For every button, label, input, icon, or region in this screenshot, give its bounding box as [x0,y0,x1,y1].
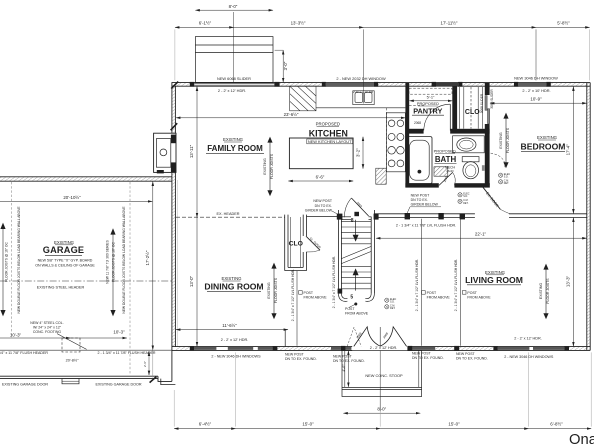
svg-text:13'-0": 13'-0" [189,275,194,287]
svg-text:S.D.: S.D. [390,301,395,304]
svg-text:NEW DOUBLE FLOOR JOISTS BELOW: NEW DOUBLE FLOOR JOISTS BELOW LOAD BEARI… [17,206,21,314]
dim: step small vertical [148,352,150,375]
door: dining closet door angled [306,236,320,252]
dim text: bottom row [199,407,563,427]
svg-text:FAMILY ROOM: FAMILY ROOM [207,144,263,153]
bath toilet [462,157,479,179]
svg-text:DN TO EX.: DN TO EX. [315,204,332,208]
svg-text:2 - 1 3/4" x 11 7/8" FLUSH HEA: 2 - 1 3/4" x 11 7/8" FLUSH HEADER [0,351,48,355]
svg-text:POST: POST [304,291,314,295]
dim: top row 6'-1 1/2" [175,26,234,28]
room: bedroom [521,135,566,151]
room: living room [465,270,523,285]
extension lines top [174,29,176,80]
svg-text:2 - 1 3/4" x 7 1/2" LVL FLUSH: 2 - 1 3/4" x 7 1/2" LVL FLUSH HDR. [454,259,458,311]
svg-text:5'-8½": 5'-8½" [557,21,570,26]
wall: header segment closet to stairs [306,216,338,218]
note: steel column [30,321,63,334]
svg-text:NEW 4" STEEL COL.: NEW 4" STEEL COL. [30,321,63,325]
wall: west wall of family room [172,83,176,134]
dim: garage 10'-3" right [71,337,127,339]
svg-text:DET.: DET. [463,202,469,205]
dim: garage width 20'-10 1/2" [0,200,152,202]
svg-text:EXISTING GARAGE DOOR: EXISTING GARAGE DOOR [95,383,141,387]
svg-text:2 - 1 3/4" x 11 7/8" LVL FLUSH: 2 - 1 3/4" x 11 7/8" LVL FLUSH HDR. [396,224,456,228]
svg-text:EXISTING: EXISTING [223,137,244,142]
post: black corner at stair bottom left [338,289,343,294]
note: smoke detector symbols near stairs [385,298,397,310]
svg-text:LIVING ROOM: LIVING ROOM [465,275,523,285]
window: pantry north window [432,82,463,87]
svg-text:NEW 3046 DH WINDOW: NEW 3046 DH WINDOW [514,75,558,80]
note: smoke detector symbols hallway [458,193,470,205]
stairs: upper run treads (8 up) [341,221,371,243]
dim: bottom row 15'-0" left [236,428,381,430]
kitchen: hatched base cabinet at SW of range [376,168,386,184]
svg-text:8'-0": 8'-0" [229,4,238,9]
dim: dining windows 11'-6 1/2" [176,329,288,331]
window: sidelight left of entry [331,346,351,351]
note: new post dn to ex found (4x) [285,352,488,363]
svg-text:POST: POST [427,291,437,295]
svg-text:POST: POST [345,307,355,311]
column: new steel column dashed box with leader [57,334,87,352]
wall: garage south wall with door openings [0,350,175,384]
dim: bedroom 10'-9" [490,102,587,104]
svg-text:22'-1": 22'-1" [475,231,487,236]
svg-text:2068: 2068 [414,121,421,125]
svg-text:2 - NEW 2032 DH WINDOW: 2 - NEW 2032 DH WINDOW [336,76,386,81]
room: family room [206,137,264,153]
room: kitchen [307,121,353,143]
door: front entry double doors [347,327,406,347]
svg-text:2'-6": 2'-6" [143,361,147,367]
svg-text:NEW POST: NEW POST [411,193,431,197]
flush header line: below dining closet [296,271,298,346]
svg-text:NEW POST: NEW POST [333,354,353,358]
door: stair top door with swing fan [344,198,368,217]
joist arrow: dining room [271,263,276,320]
dim: top row 17'-11 1/2" [364,26,537,28]
svg-text:GIRDER BELOW: GIRDER BELOW [305,208,333,212]
wall: interior header / bedroom south wall [375,213,587,218]
svg-text:15'-0": 15'-0" [448,421,460,426]
svg-text:NEW KITCHEN LAYOUT: NEW KITCHEN LAYOUT [308,139,352,144]
svg-text:EXISTING: EXISTING [221,276,242,281]
wall: pantry/closet divider [452,86,457,132]
svg-text:EXISTING: EXISTING [499,132,503,149]
svg-text:2 - 2' x 12' HDR.: 2 - 2' x 12' HDR. [370,346,398,350]
wall: dining closet CLO [285,215,307,271]
bath: mech chase hatched [434,167,448,176]
svg-text:CLO: CLO [465,109,480,116]
dim: stoop depth 4'-0" [347,351,349,387]
svg-text:6'-8½": 6'-8½" [550,421,563,426]
wall: east exterior wall [587,83,590,351]
dim: top row 13'-3 1/2" [234,26,364,28]
svg-text:GARAGE: GARAGE [43,245,85,255]
svg-text:EXISTING: EXISTING [263,158,267,175]
wall: bath south wall [405,183,489,187]
svg-text:NEW POST: NEW POST [412,352,432,356]
wall: step at garage SE corner [158,376,172,381]
header: garage flush header line [0,349,172,351]
svg-text:FLOOR JOISTS: FLOOR JOISTS [546,278,550,304]
fireplace: family room west wall [154,133,176,173]
svg-text:EXISTING STEEL HEADER: EXISTING STEEL HEADER [37,286,85,290]
room: dining room [204,276,263,291]
wall: closet east / bedroom west wall [485,83,490,185]
svg-text:CLO: CLO [289,240,303,247]
joist arrows: garage bays [0,182,130,375]
joist arrow: family room [267,137,272,197]
svg-text:3068 SLIDER: 3068 SLIDER [480,93,484,113]
stoop center line [379,351,381,411]
dim text: top row [199,4,570,26]
stairs: down arrow upper run [351,218,359,242]
note: new post dn to ex girder below (right of stairs) [407,193,441,213]
dim: bottom row 6'-8 1/2" [529,428,592,430]
svg-text:8: 8 [351,218,354,224]
svg-text:S.D.: S.D. [463,195,468,198]
kitchen counter: corner unit with X [290,86,316,111]
svg-text:2 - 2' x 12' HDR.: 2 - 2' x 12' HDR. [514,337,542,341]
svg-text:17'-4": 17'-4" [566,144,571,156]
note: new post dn to ex girder below (left of stairs) [305,199,338,214]
svg-text:DET.: DET. [390,307,396,310]
svg-text:6'-1½": 6'-1½" [199,21,212,26]
svg-text:2 - NEW 3046 DH WINDOWS: 2 - NEW 3046 DH WINDOWS [211,355,261,359]
svg-text:S.D.: S.D. [504,176,509,179]
window: 2 - NEW 3046 DH WINDOWS living room front [493,346,569,351]
svg-text:15'-0": 15'-0" [302,421,314,426]
svg-text:13'-11": 13'-11" [189,144,194,158]
svg-text:EX. HEADER: EX. HEADER [217,212,240,216]
kitchen island: NEW KITCHEN LAYOUT [289,138,353,169]
dim: living room depth 13'-3" [572,218,574,346]
joist arrow: living room [543,264,548,320]
dim: deck width 8'-0" [195,9,273,11]
window: NEW 3046 DH WINDOW bedroom north [514,82,551,87]
door opening: pantry 2068 door [424,128,451,134]
dim: garage 10'-3" left [0,337,71,339]
dim: west rooms 13'-11" [196,87,198,218]
svg-text:DN TO EX. FOUND.: DN TO EX. FOUND. [333,359,365,363]
window: right of entry [407,346,459,351]
svg-text:2 - 1 3/4" x 11 7/8" FLUSH HEA: 2 - 1 3/4" x 11 7/8" FLUSH HEADER [97,351,155,355]
svg-text:MECH: MECH [445,166,456,170]
dim: bottom row 6'-4 1/2" [174,428,235,430]
room: bath [434,149,457,183]
svg-text:3'-2": 3'-2" [355,148,360,157]
svg-text:DET.: DET. [504,182,510,185]
svg-text:5'-1": 5'-1" [427,94,435,99]
stairs: enclosure walls [338,210,374,301]
svg-text:EXISTING GARAGE DOOR: EXISTING GARAGE DOOR [2,383,48,387]
dim: stoop width 8'-0" [343,412,420,414]
svg-text:POST: POST [467,291,477,295]
door opening: bath 2068 door [439,183,455,188]
dim: island 3'-2" [362,137,364,169]
svg-text:NEW 11 7/8" TJI 360 SERIES: NEW 11 7/8" TJI 360 SERIES [105,239,109,283]
svg-text:10'-3": 10'-3" [113,329,125,334]
svg-text:FLOOR JOISTS @ 16" OC: FLOOR JOISTS @ 16" OC [5,242,9,282]
svg-text:NEW POST: NEW POST [313,199,333,203]
svg-text:PROPOSED: PROPOSED [434,149,456,154]
room: garage [35,240,95,268]
svg-text:4'-0": 4'-0" [342,364,346,372]
door: bedroom entry door angled with swing [482,153,510,214]
closet CLO: shelf lines [459,87,482,129]
wall: west wall of dining room / garage east wall [172,172,178,381]
dim: island 6'-6" [288,180,353,182]
svg-text:FLOOR JOISTS: FLOOR JOISTS [506,127,510,153]
svg-text:17'-11½": 17'-11½" [441,21,458,26]
svg-text:NEW 6068 SLIDER: NEW 6068 SLIDER [217,76,251,81]
wall: garage north wall [0,177,172,181]
svg-text:NEW DOUBLE FLOOR JOISTS BELOW: NEW DOUBLE FLOOR JOISTS BELOW LOAD BEARI… [122,206,126,314]
svg-text:2 - 1 3/4" x 7 1/2" LVL FLUSH: 2 - 1 3/4" x 7 1/2" LVL FLUSH HDR. [332,256,336,308]
svg-text:PANTRY: PANTRY [413,106,442,115]
svg-text:20'-8½": 20'-8½" [66,358,79,362]
svg-text:FLOOR JOISTS @ 16" OC: FLOOR JOISTS @ 16" OC [112,242,116,282]
svg-text:17'-2½": 17'-2½" [145,250,150,265]
dim: bottom row 15'-0" right [380,428,528,430]
wall: south exterior wall (front) [172,347,590,351]
svg-text:FROM ABOVE: FROM ABOVE [427,296,451,300]
svg-text:11'-6½": 11'-6½" [222,323,237,328]
svg-text:6'-6": 6'-6" [316,175,325,180]
window: small bar bath east wall [482,165,485,171]
svg-text:EXISTING: EXISTING [537,135,558,140]
wall: pantry/bath divider [405,129,489,134]
dim: top row 5'-8 1/2" [536,26,590,28]
dim: west rooms 13'-0" [196,217,198,346]
svg-text:GIRDER BELOW: GIRDER BELOW [411,203,439,207]
svg-text:KITCHEN: KITCHEN [309,129,348,139]
svg-text:FROM ABOVE: FROM ABOVE [304,296,328,300]
svg-text:13'-3½": 13'-3½" [291,21,306,26]
svg-text:PROPOSED: PROPOSED [417,101,439,106]
wall hatching: exterior wall cores [0,83,590,350]
svg-text:DINING ROOM: DINING ROOM [204,281,263,291]
joist arrow: bedroom [503,113,508,169]
dim: bedroom depth 17'-4" [572,87,574,214]
svg-text:ON WALLS & CEILING OF GARAGE: ON WALLS & CEILING OF GARAGE [35,264,95,268]
svg-text:EXISTING: EXISTING [267,282,271,299]
svg-text:2'-6" x 2'-0" DR: 2'-6" x 2'-0" DR [353,90,374,94]
svg-text:FLOOR JOISTS: FLOOR JOISTS [270,153,274,179]
kitchen range: cooktop circles on east counter [386,108,405,172]
svg-text:2 - 2' x 10' HDR.: 2 - 2' x 10' HDR. [522,88,550,93]
dim: garage depth 17'-2 1/2" [152,182,154,350]
svg-text:W/ 24" x 24" x 12": W/ 24" x 24" x 12" [33,326,62,330]
svg-text:CONC. FOOTING: CONC. FOOTING [33,330,61,334]
window: 2 - NEW 2032 DH WINDOW over kitchen sink [322,82,378,87]
svg-text:13'-3": 13'-3" [566,275,571,287]
stairs: lower run treads (5 dn) [341,266,371,288]
svg-text:EXISTING: EXISTING [539,283,543,300]
door opening: front entry [352,346,407,351]
svg-text:6'-4½": 6'-4½" [199,421,212,426]
svg-text:BEDROOM: BEDROOM [521,141,566,151]
svg-text:2 - 2' x 12' HDR.: 2 - 2' x 12' HDR. [221,338,249,342]
tick: wall corner dimension slashes [171,82,178,89]
header: existing steel header dash-dot in garage [0,280,172,282]
svg-text:FLOOR JOISTS: FLOOR JOISTS [274,277,278,303]
dim: pantry 5'-1" [409,100,452,102]
pantry: dashed shelves [409,88,452,105]
svg-text:20'-10½": 20'-10½" [63,195,81,200]
svg-text:3068 SLIDER: 3068 SLIDER [490,89,494,109]
bath tub [407,137,432,184]
kitchen counter: front edge along north wall [316,107,405,109]
kitchen sink: double bowl under window [353,91,374,105]
svg-text:2 - 1 3/4" x 7 1/2" LVL FLUSH: 2 - 1 3/4" x 7 1/2" LVL FLUSH HDR. [415,259,419,311]
post: leader dot below stairs [354,303,357,306]
deck: rear deck outline [195,37,273,83]
dim: kitchen width 23'-6 1/2" [176,117,405,119]
svg-text:23'-6½": 23'-6½" [284,112,299,117]
svg-text:2 - NEW 3046 DH WINDOWS: 2 - NEW 3046 DH WINDOWS [504,355,554,359]
note: post from above labels [299,291,492,316]
svg-text:NEW POST: NEW POST [285,353,305,357]
flush header lines: living room vertical [421,219,423,346]
svg-text:BATH: BATH [435,155,457,164]
dim: deck height 3'-0" [282,50,284,82]
note: smoke detector symbols bedroom [499,173,511,185]
svg-text:FROM ABOVE: FROM ABOVE [345,311,369,315]
header: EX. HEADER dashed line over dining opening [176,216,285,218]
bath vanity with sink [453,136,485,153]
window: NEW 6068 SLIDER on north wall [190,82,280,87]
svg-text:5: 5 [350,294,353,300]
dim: living room width 22'-1" [376,237,587,239]
stairs: up arrow lower run [350,268,358,300]
room: pantry [412,94,444,125]
wall: north exterior wall (family/kitchen/pantry/bedroom) [172,83,591,87]
extension lines bottom [173,390,175,427]
door: 3068 sliders closet to bedroom [484,95,490,124]
svg-text:DN TO EX.: DN TO EX. [411,198,428,202]
svg-text:26x30: 26x30 [446,169,454,173]
svg-text:10'-9": 10'-9" [530,96,542,101]
svg-text:10'-3": 10'-3" [10,332,22,337]
pantry: door swing arc 2068 [424,104,451,130]
stairs: top edge with door gap [341,217,371,220]
window: 2 - NEW 3046 DH WINDOWS dining front [190,346,278,351]
svg-text:8'-0": 8'-0" [377,407,386,412]
svg-text:DN TO EX. FOUND.: DN TO EX. FOUND. [456,357,488,361]
svg-text:NEW POST: NEW POST [456,352,476,356]
svg-text:DN TO EX. FOUND.: DN TO EX. FOUND. [412,356,444,360]
svg-text:NEW 5/8" TYPE "X" GYP. BOARD: NEW 5/8" TYPE "X" GYP. BOARD [38,258,93,262]
svg-text:NEW CONC. STOOP: NEW CONC. STOOP [365,373,403,378]
stairs: break line diagonal [341,246,371,263]
svg-text:DN TO EX. FOUND.: DN TO EX. FOUND. [285,357,317,361]
svg-text:2 - 2' x 12' HDR.: 2 - 2' x 12' HDR. [218,88,246,93]
bath: 2068 door swing [439,172,455,185]
wall: kitchen/bath divider (new wall, solid) [405,83,409,188]
svg-text:3'-0": 3'-0" [283,61,288,70]
svg-text:FROM ABOVE: FROM ABOVE [467,296,491,300]
svg-text:2 - 1 3/4" x 7 1/2" LVL FLUSH: 2 - 1 3/4" x 7 1/2" LVL FLUSH HDR. [291,269,295,321]
posts: black posts at interior header [337,214,343,220]
stoop: NEW CONC. STOOP outline [342,350,422,396]
svg-text:PROPOSED: PROPOSED [316,121,340,126]
svg-text:Ona: Ona [569,432,594,445]
